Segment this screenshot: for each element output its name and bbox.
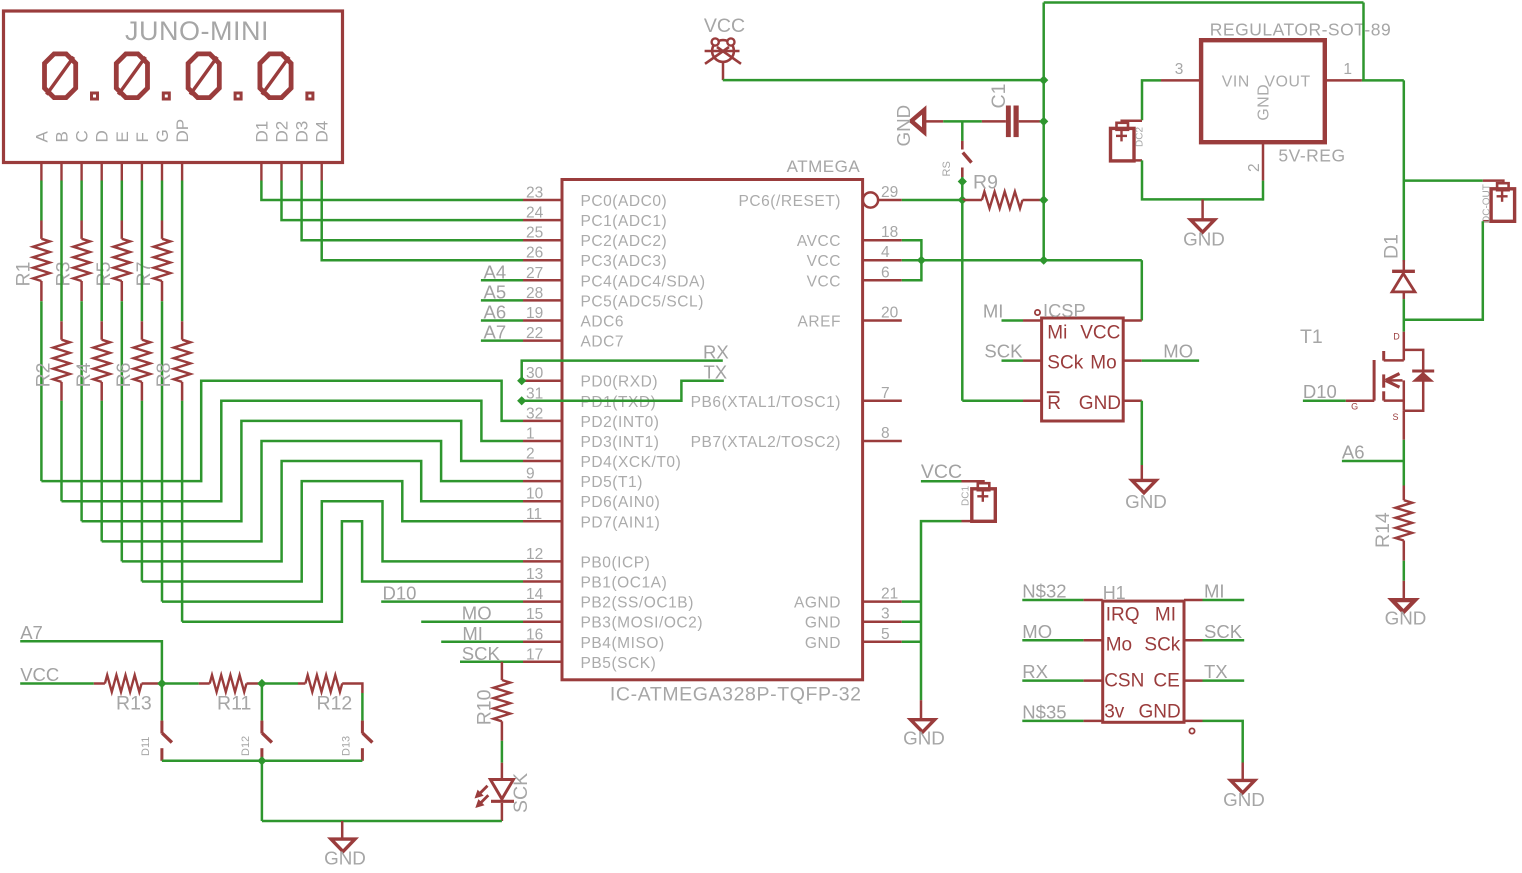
- svg-text:18: 18: [881, 224, 898, 241]
- svg-text:C: C: [73, 130, 92, 142]
- svg-text:PC2(ADC2): PC2(ADC2): [581, 233, 668, 250]
- resistor R4: [100, 321, 103, 339]
- svg-text:A: A: [32, 131, 51, 143]
- svg-text:D10: D10: [1303, 381, 1337, 402]
- 7-segment display module JUNO-MINI: [4, 11, 343, 163]
- IC pin 2 PD4(XCK/T0): [523, 460, 562, 463]
- svg-text:N$32: N$32: [1022, 581, 1066, 602]
- svg-text:PD7(AIN1): PD7(AIN1): [581, 514, 661, 531]
- IC pin 29 PC6(/RESET): [863, 192, 878, 207]
- resistor R3: [80, 221, 83, 239]
- wire net A6: [1342, 460, 1404, 463]
- svg-text:AREF: AREF: [797, 314, 841, 331]
- display pin stub D1: [260, 163, 262, 181]
- svg-text:MI: MI: [1204, 581, 1225, 602]
- display pin stub G: [161, 163, 163, 181]
- wire source down: [1403, 411, 1406, 440]
- ground (H1): [1241, 763, 1244, 781]
- connector ICSP body: [1042, 318, 1124, 421]
- wire junction to R11: [162, 682, 199, 685]
- supply symbol VCC (top): [705, 47, 729, 64]
- wire net A7: [481, 339, 523, 342]
- svg-text:R13: R13: [116, 693, 152, 715]
- svg-text:PB7(XTAL2/TOSC2): PB7(XTAL2/TOSC2): [691, 434, 841, 451]
- svg-text:28: 28: [526, 285, 543, 302]
- H1 left pin (MO): [1083, 639, 1102, 642]
- IC U1 ATMEGA328P body: [562, 180, 863, 680]
- svg-text:PB6(XTAL1/TOSC1): PB6(XTAL1/TOSC1): [691, 394, 841, 411]
- wire down to switch RS: [961, 121, 964, 140]
- wire net A4: [481, 279, 523, 282]
- svg-text:PD3(INT1): PD3(INT1): [581, 434, 660, 451]
- wire net TX (H1): [1203, 679, 1245, 682]
- wire segment net C to pin 2: [82, 421, 523, 521]
- svg-text:R9: R9: [973, 172, 998, 194]
- wire segment net F to pin 11: [142, 481, 523, 581]
- regulator pin 3: [1161, 79, 1201, 82]
- svg-text:PD2(INT0): PD2(INT0): [581, 414, 660, 431]
- svg-text:PB3(MOSI/OC2): PB3(MOSI/OC2): [581, 615, 704, 632]
- wire net MI: [441, 641, 523, 644]
- svg-text:ATMEGA: ATMEGA: [787, 157, 861, 176]
- wire net D10: [381, 600, 523, 603]
- wire net MI (H1): [1203, 599, 1245, 602]
- wire segment R6 to bus: [141, 401, 144, 582]
- H1 right pin (MI): [1184, 599, 1203, 602]
- svg-text:19: 19: [526, 305, 543, 322]
- svg-text:GND: GND: [805, 635, 841, 652]
- svg-text:11: 11: [526, 506, 542, 523]
- wire net SCK (ICSP): [1002, 359, 1024, 362]
- svg-text:D12: D12: [240, 736, 252, 756]
- wire junction down to gnd rail: [261, 761, 264, 821]
- svg-text:D: D: [1393, 332, 1400, 342]
- wire segment net G to pin 12: [162, 501, 523, 601]
- IC pin 6 VCC: [863, 279, 902, 282]
- display pin stub B: [60, 163, 62, 181]
- svg-text:GND: GND: [805, 615, 841, 632]
- wire net RX: [522, 361, 723, 381]
- svg-text:PC1(ADC1): PC1(ADC1): [581, 213, 668, 230]
- wire VCC to R13: [20, 682, 94, 685]
- wire segment display pin to R2: [60, 181, 63, 322]
- wire net N$35: [1022, 720, 1083, 723]
- svg-text:SCK: SCK: [984, 341, 1023, 362]
- svg-text:Mi: Mi: [1047, 323, 1067, 344]
- wire DC1 to gnd net: [921, 521, 962, 700]
- svg-text:2: 2: [1246, 163, 1263, 172]
- svg-text:3v: 3v: [1104, 702, 1125, 723]
- svg-text:N$35: N$35: [1022, 701, 1066, 722]
- junction VCC rail bottom: [1039, 256, 1048, 265]
- display decimal point (#1): [92, 93, 98, 99]
- wire digit D2 to pin 24: [282, 181, 524, 221]
- wire segment net B to pin 1: [62, 401, 524, 501]
- svg-text:ADC6: ADC6: [581, 314, 625, 331]
- svg-text:3: 3: [881, 606, 890, 623]
- wire segment R5 to bus: [121, 301, 124, 561]
- svg-text:PC6(/RESET): PC6(/RESET): [738, 193, 841, 210]
- wire DC2 to gnd: [1142, 160, 1264, 199]
- wire rail corner to pin1: [1362, 3, 1365, 81]
- svg-text:IRQ: IRQ: [1106, 605, 1140, 626]
- wire output rail down: [1403, 80, 1406, 261]
- wire pin3 GND: [902, 620, 921, 623]
- svg-text:CSN: CSN: [1104, 670, 1144, 691]
- junction pin 30: [517, 376, 526, 385]
- display digit 0 (#3): [188, 54, 219, 98]
- svg-text:PB0(ICP): PB0(ICP): [581, 554, 651, 571]
- svg-text:22: 22: [526, 325, 543, 342]
- ground (ICSP): [1141, 465, 1144, 481]
- LED SCK: [501, 763, 504, 781]
- svg-text:PB4(MISO): PB4(MISO): [581, 635, 665, 652]
- svg-text:GND: GND: [903, 728, 945, 749]
- svg-text:PB5(SCK): PB5(SCK): [581, 655, 657, 672]
- wire to DC-OUT battery: [1404, 179, 1483, 182]
- battery DC2: [1122, 121, 1142, 123]
- display pin stub C: [80, 163, 82, 181]
- junction reset node: [958, 195, 967, 204]
- wire D1 to T1 drain: [1403, 299, 1406, 332]
- svg-text:8: 8: [881, 425, 890, 442]
- svg-text:F: F: [133, 132, 152, 142]
- svg-text:MI: MI: [983, 301, 1004, 322]
- junction switch D12 bottom: [257, 756, 266, 765]
- svg-text:A7: A7: [20, 622, 43, 643]
- ICSP pin R: [1023, 400, 1042, 403]
- svg-text:VIN: VIN: [1222, 74, 1250, 91]
- svg-text:GND: GND: [324, 848, 366, 869]
- svg-text:R10: R10: [474, 689, 496, 725]
- svg-text:MO: MO: [1022, 621, 1052, 642]
- regulator pin 2: [1262, 142, 1265, 180]
- svg-text:R11: R11: [217, 693, 251, 715]
- svg-text:VCC: VCC: [1080, 323, 1120, 344]
- wire net A7: [20, 641, 162, 683]
- wire segment display pin to R1: [40, 181, 43, 221]
- wire segment display pin to R3: [80, 181, 83, 221]
- svg-text:SCk: SCk: [1144, 635, 1180, 656]
- svg-text:17: 17: [526, 646, 543, 663]
- wire bottom gnd rail: [262, 820, 502, 823]
- svg-text:TX: TX: [704, 362, 728, 383]
- IC pin 14 PB2(SS/OC1B): [523, 600, 562, 603]
- svg-text:5V-REG: 5V-REG: [1278, 146, 1345, 166]
- svg-text:RX: RX: [1022, 661, 1048, 682]
- svg-text:CE: CE: [1153, 670, 1179, 691]
- IC pin 7 PB6(XTAL1/TOSC1): [863, 400, 902, 403]
- display pin stub D3: [300, 163, 302, 181]
- svg-text:25: 25: [526, 225, 543, 242]
- IC pin 5 GND: [863, 641, 902, 644]
- svg-text:GND: GND: [1385, 607, 1427, 628]
- display decimal point (#2): [163, 93, 169, 99]
- wire H1 GND: [1203, 721, 1243, 763]
- svg-text:GND: GND: [1183, 229, 1225, 250]
- wire segment display pin to R5: [121, 181, 124, 221]
- svg-text:VCC: VCC: [921, 461, 962, 483]
- junction C1/VCC rail: [1039, 117, 1048, 126]
- resistor R8: [181, 321, 184, 339]
- H1 left pin (N$35): [1083, 720, 1102, 723]
- IC pin 26 PC3(ADC3): [523, 259, 562, 262]
- wire R10 to LED: [501, 741, 504, 763]
- svg-text:PD4(XCK/T0): PD4(XCK/T0): [581, 454, 682, 471]
- wire segment display pin to R8: [181, 181, 184, 322]
- svg-text:PC3(ADC3): PC3(ADC3): [581, 253, 668, 270]
- svg-text:R8: R8: [153, 362, 175, 387]
- svg-text:AGND: AGND: [794, 595, 841, 612]
- svg-text:D1: D1: [1381, 234, 1403, 259]
- junction R9/VCC rail: [1039, 195, 1048, 204]
- IC pin 15 PB3(MOSI/OC2): [523, 620, 562, 623]
- wire RS to reset node: [961, 177, 964, 200]
- display decimal point (#4): [307, 93, 313, 99]
- IC pin 10 PD6(AIN0): [523, 500, 562, 503]
- svg-text:PD5(T1): PD5(T1): [581, 474, 643, 491]
- resistor R6: [141, 321, 144, 339]
- resistor R7: [161, 221, 164, 239]
- wire net N$32: [1022, 599, 1083, 602]
- svg-text:30: 30: [526, 365, 544, 382]
- H1 origin dot: [1189, 728, 1194, 733]
- ICSP pin SCk: [1023, 359, 1042, 362]
- IC pin 28 PC5(ADC5/SCL): [523, 299, 562, 302]
- wire top rail to regulator: [1044, 1, 1364, 4]
- wire net MO: [1022, 639, 1083, 642]
- ground (bottom left): [341, 821, 344, 840]
- wire net MO: [421, 620, 523, 623]
- svg-text:15: 15: [526, 606, 543, 623]
- junction AVCC/VCC: [917, 256, 926, 265]
- IC pin 12 PB0(ICP): [523, 560, 562, 563]
- svg-text:7: 7: [881, 385, 890, 402]
- resistor R11: [199, 682, 210, 685]
- LED arrows: [479, 786, 488, 795]
- svg-text:D11: D11: [140, 737, 152, 756]
- wire switch bottoms: [162, 760, 363, 763]
- IC pin 25 PC2(ADC2): [523, 239, 562, 242]
- wire digit D4 to pin 26: [322, 181, 523, 261]
- wire pin2 to gnd: [1262, 181, 1265, 201]
- svg-text:Mo: Mo: [1106, 635, 1132, 656]
- junction RS bottom: [958, 177, 967, 186]
- switch RS: [961, 141, 964, 150]
- IC pin 22 ADC7: [523, 339, 562, 342]
- wire net A6: [481, 319, 523, 322]
- svg-text:VCC: VCC: [20, 664, 59, 685]
- ICSP pin Mi: [1023, 319, 1042, 322]
- svg-text:R5: R5: [93, 261, 115, 286]
- svg-text:DC-OUT: DC-OUT: [1482, 184, 1493, 223]
- IC pin 30 PD0(RXD): [523, 379, 562, 382]
- H1 right pin (SCK): [1184, 639, 1203, 642]
- junction node R13/R11: [157, 679, 166, 688]
- battery DC1: [962, 481, 984, 483]
- svg-text:RX: RX: [703, 342, 729, 363]
- wire net MI (ICSP): [1002, 319, 1024, 322]
- svg-text:14: 14: [526, 586, 544, 603]
- wire net A5: [481, 299, 523, 302]
- svg-text:27: 27: [526, 265, 543, 282]
- wire digit D3 to pin 25: [302, 181, 523, 241]
- svg-text:21: 21: [881, 586, 898, 603]
- IC pin 1 PD3(INT1): [523, 440, 562, 443]
- svg-text:26: 26: [526, 245, 543, 262]
- svg-text:9: 9: [526, 466, 535, 483]
- H1 left pin (RX): [1083, 679, 1102, 682]
- switch D13: [361, 721, 364, 734]
- resistor R2: [60, 321, 63, 339]
- wire net SCK (H1): [1203, 639, 1245, 642]
- svg-text:R14: R14: [1372, 512, 1394, 548]
- ground (reset rail, left arrow): [911, 110, 924, 132]
- svg-text:PD0(RXD): PD0(RXD): [581, 374, 659, 391]
- IC pin 19 ADC6: [523, 319, 562, 322]
- svg-text:Mo: Mo: [1090, 353, 1116, 374]
- IC pin 20 AREF: [863, 319, 902, 322]
- resistor R13: [94, 682, 105, 685]
- svg-text:B: B: [53, 131, 72, 142]
- svg-text:5: 5: [881, 626, 890, 643]
- svg-text:VCC: VCC: [807, 253, 841, 270]
- wire reset node down to ICSP R pin: [961, 200, 964, 401]
- IC pin 17 PB5(SCK): [523, 661, 562, 664]
- svg-text:10: 10: [526, 486, 544, 503]
- wire to switch D12: [261, 684, 264, 721]
- svg-text:G: G: [153, 129, 172, 142]
- svg-text:SCk: SCk: [1047, 353, 1083, 374]
- svg-text:GND: GND: [893, 105, 914, 147]
- wire junction to R12: [262, 682, 298, 685]
- IC pin 21 AGND: [863, 600, 902, 603]
- svg-text:PC4(ADC4/SDA): PC4(ADC4/SDA): [581, 273, 706, 290]
- display pin stub D2: [280, 163, 282, 181]
- ICSP pin Mo: [1123, 359, 1142, 362]
- display decimal point (#3): [235, 93, 241, 99]
- wire segment display pin to R4: [100, 181, 103, 322]
- svg-text:29: 29: [881, 184, 898, 201]
- resistor R9: [962, 199, 982, 202]
- wire net D10 to gate: [1303, 400, 1346, 403]
- svg-text:E: E: [113, 131, 132, 142]
- display pin stub A: [40, 163, 42, 181]
- wire DC-OUT return: [1404, 221, 1483, 320]
- svg-text:PD1(TXD): PD1(TXD): [581, 394, 657, 411]
- wire to switch D13: [361, 693, 364, 721]
- wire segment net E to pin 10: [122, 461, 523, 561]
- svg-text:T1: T1: [1300, 326, 1323, 348]
- svg-text:R12: R12: [317, 693, 353, 715]
- switch D12: [260, 721, 263, 734]
- wire pin4 VCC to ICSP: [902, 259, 1142, 262]
- svg-text:PC5(ADC5/SCL): PC5(ADC5/SCL): [581, 293, 704, 310]
- IC pin 32 PD2(INT0): [523, 420, 562, 423]
- resistor R14: [1403, 486, 1406, 501]
- IC pin 23 PC0(ADC0): [523, 199, 562, 202]
- svg-text:H1: H1: [1103, 583, 1126, 603]
- wire net MO (ICSP): [1142, 359, 1199, 362]
- ground (IC): [920, 700, 923, 720]
- wire VCC symbol to rail: [723, 79, 1044, 82]
- svg-text:GND: GND: [1139, 702, 1181, 723]
- svg-text:TX: TX: [1204, 661, 1228, 682]
- svg-text:S: S: [1393, 412, 1399, 422]
- H1 GND pin: [1184, 720, 1203, 723]
- wire segment R4 to bus: [100, 401, 103, 542]
- wire pin3 to DC2: [1142, 80, 1161, 120]
- svg-text:1: 1: [1343, 61, 1352, 78]
- IC pin 31 PD1(TXD): [523, 400, 562, 403]
- svg-text:32: 32: [526, 405, 543, 422]
- display pin stub F: [141, 163, 143, 181]
- battery DC-OUT: [1483, 181, 1504, 184]
- wire segment R8 to bus: [181, 401, 184, 622]
- svg-text:1: 1: [526, 426, 535, 443]
- wire segment net D to pin 9: [102, 441, 523, 541]
- IC pin 3 GND: [863, 620, 902, 623]
- ground (R14): [1403, 581, 1406, 601]
- svg-text:PC0(ADC0): PC0(ADC0): [581, 193, 668, 210]
- wire net SCK: [460, 661, 523, 664]
- svg-text:PD6(AIN0): PD6(AIN0): [581, 494, 661, 511]
- svg-text:R6: R6: [113, 362, 135, 387]
- svg-text:D4: D4: [313, 121, 332, 143]
- wire segment R7 to bus: [161, 301, 164, 601]
- svg-text:MO: MO: [1163, 341, 1193, 362]
- IC pin 8 PB7(XTAL2/TOSC2): [863, 440, 902, 443]
- IC pin 18 AVCC: [863, 239, 902, 242]
- wire R14 to gnd: [1403, 561, 1406, 581]
- junction pin 31: [517, 396, 526, 405]
- svg-text:D: D: [93, 130, 112, 142]
- svg-text:D13: D13: [341, 736, 353, 756]
- svg-text:PB1(OC1A): PB1(OC1A): [581, 575, 668, 592]
- svg-text:13: 13: [526, 566, 543, 583]
- diode D1: [1403, 260, 1406, 273]
- svg-text:DC2: DC2: [1135, 127, 1146, 147]
- svg-text:PB2(SS/OC1B): PB2(SS/OC1B): [581, 595, 694, 612]
- wire net RX: [1022, 679, 1083, 682]
- svg-text:3: 3: [1175, 61, 1184, 78]
- wire pin1 to output rail: [1362, 79, 1404, 82]
- svg-text:JUNO-MINI: JUNO-MINI: [125, 16, 269, 46]
- IC pin 16 PB4(MISO): [523, 641, 562, 644]
- IC pin 11 PD7(AIN1): [523, 520, 562, 523]
- display pin stub D4: [321, 163, 323, 181]
- svg-text:24: 24: [526, 205, 544, 222]
- capacitor C1: [982, 120, 1006, 123]
- wire to switch D11: [161, 684, 164, 721]
- svg-text:2: 2: [526, 446, 535, 463]
- display pin stub DP: [181, 163, 183, 181]
- wire digit D1 to pin 23: [261, 181, 523, 201]
- svg-text:IC-ATMEGA328P-TQFP-32: IC-ATMEGA328P-TQFP-32: [610, 684, 862, 706]
- wire gnd to C1: [943, 120, 982, 123]
- wire VCC to DC1: [921, 480, 962, 483]
- display digit 0 (#2): [116, 54, 147, 98]
- svg-text:R2: R2: [33, 362, 55, 387]
- svg-text:AVCC: AVCC: [797, 233, 841, 250]
- IC pin 4 VCC: [863, 259, 902, 262]
- IC pin 9 PD5(T1): [523, 480, 562, 483]
- wire net TX: [522, 381, 724, 401]
- svg-text:GND: GND: [1079, 393, 1121, 414]
- display digit 0 (#4): [260, 54, 291, 98]
- svg-text:DC1: DC1: [961, 486, 972, 506]
- H1 right pin (TX): [1184, 679, 1203, 682]
